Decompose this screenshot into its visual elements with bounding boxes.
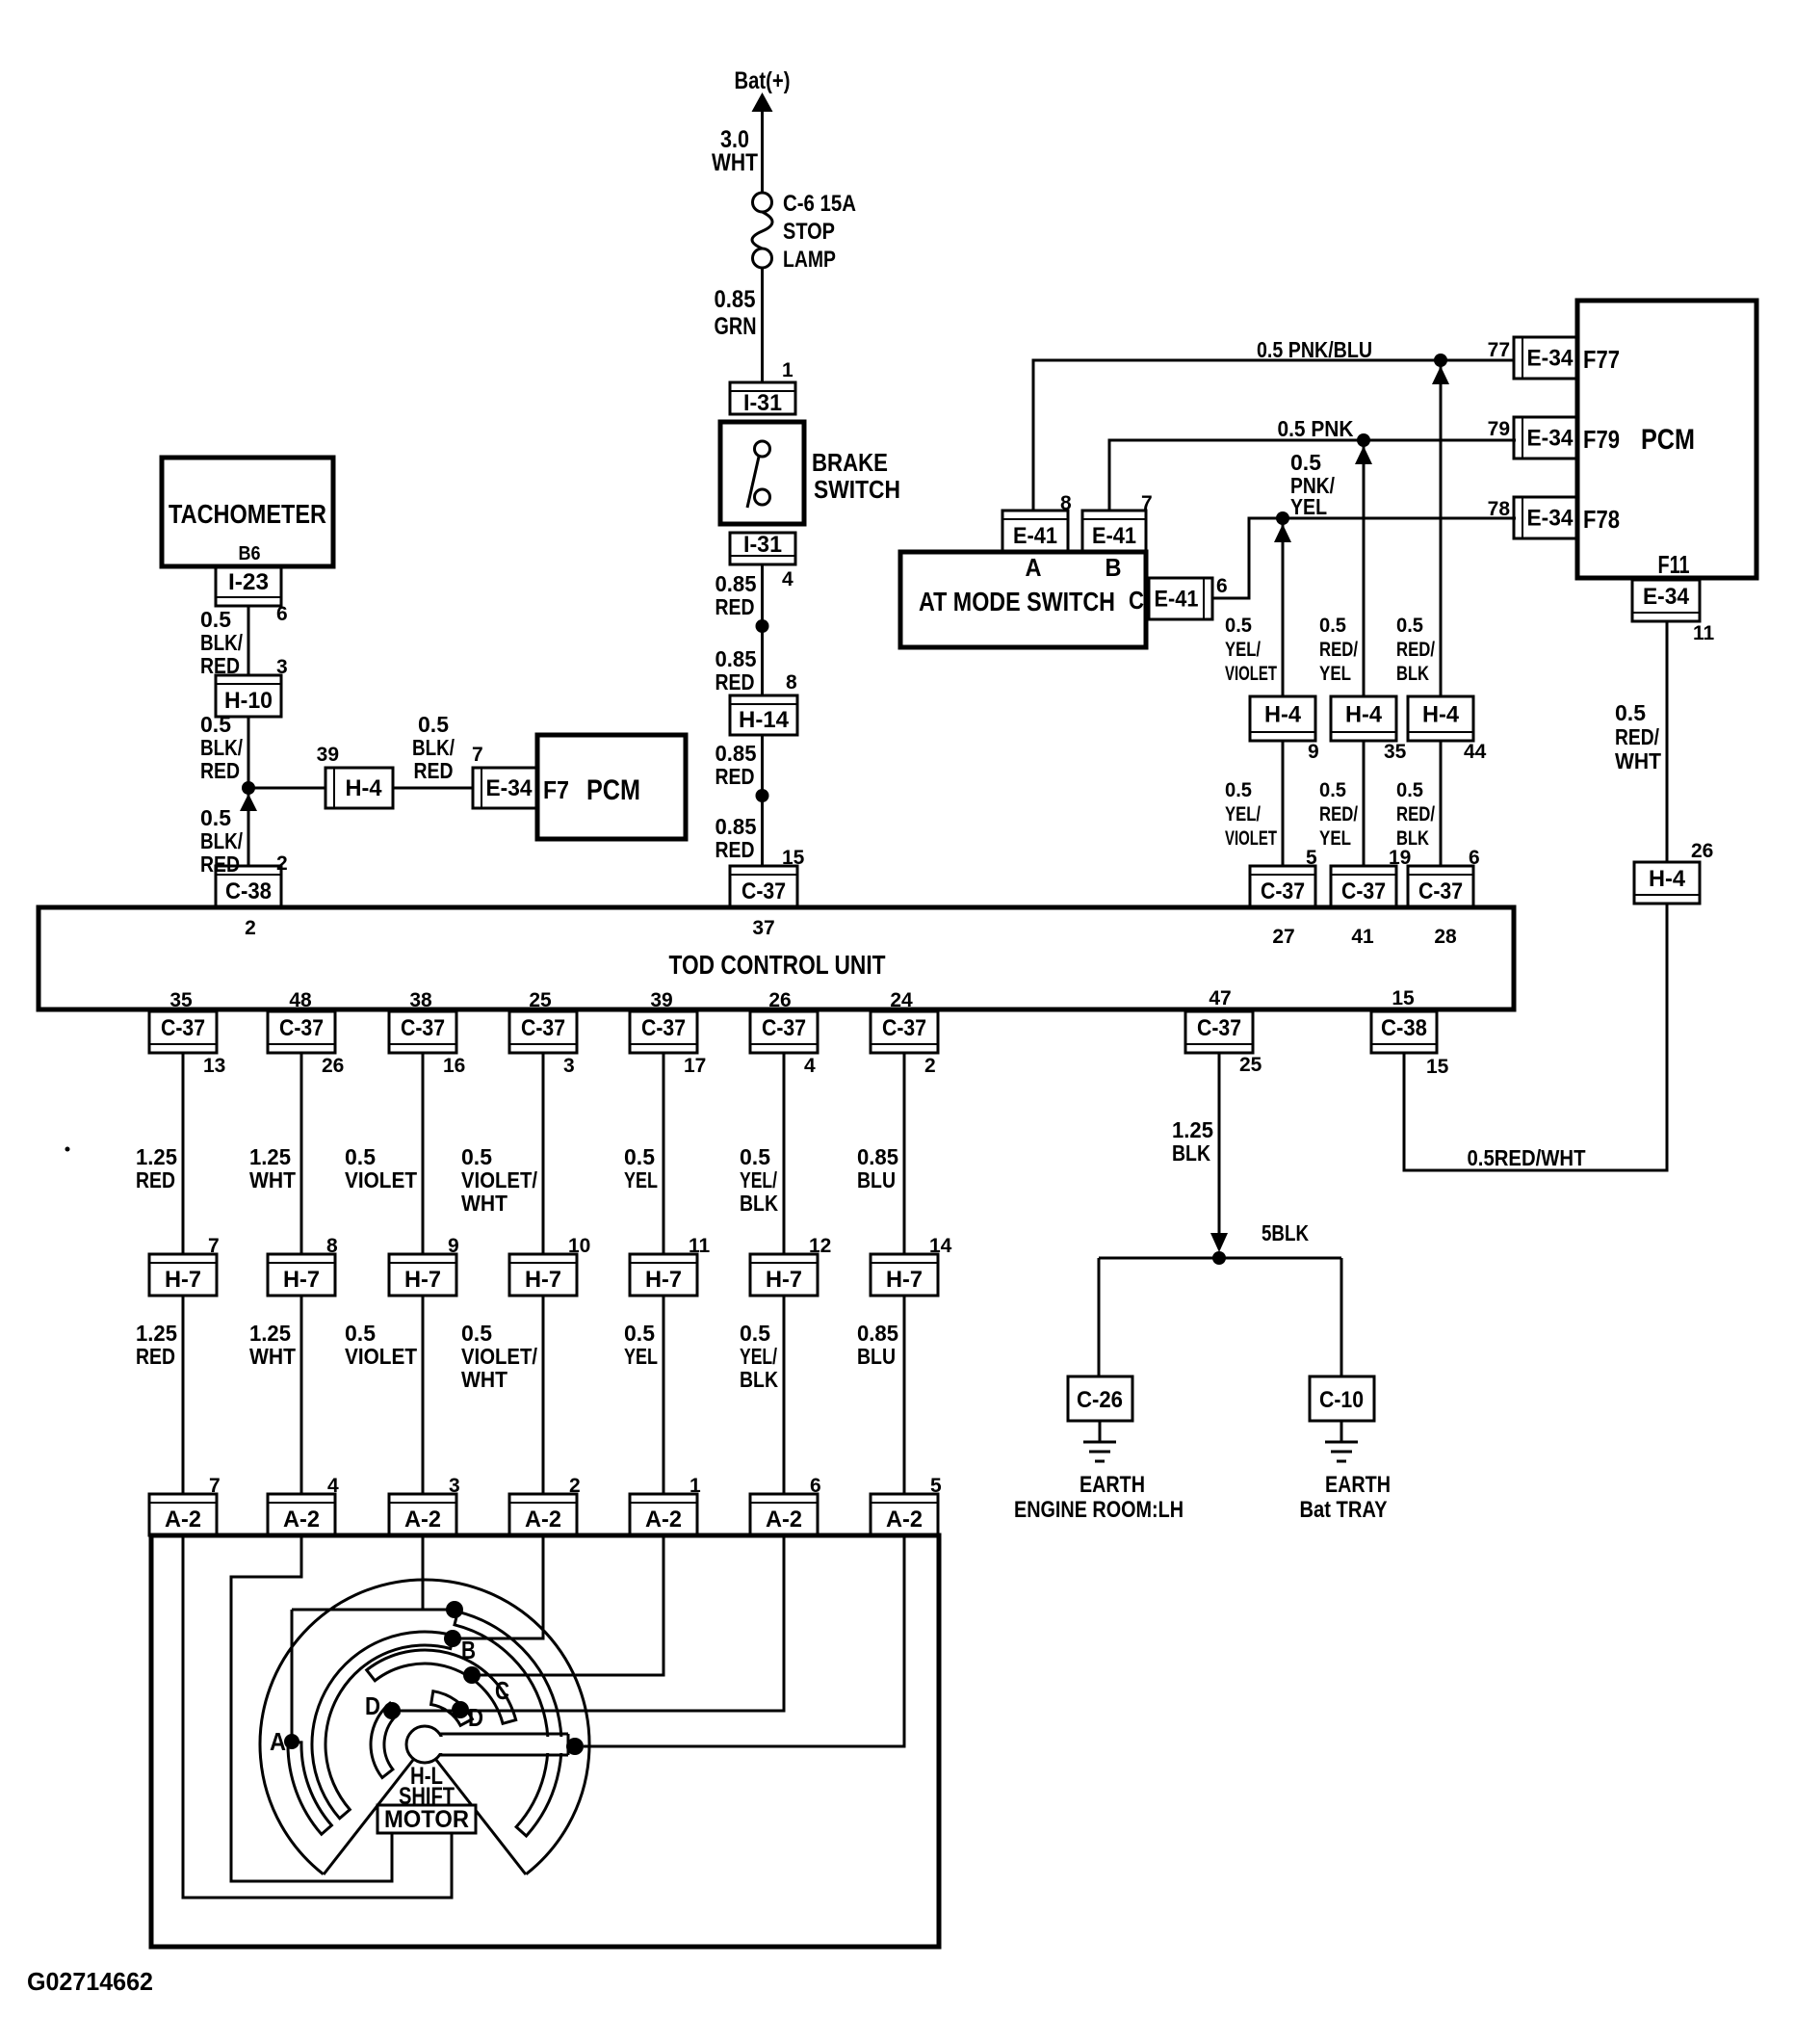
svg-text:E-41: E-41	[1155, 587, 1199, 613]
terminal dot winding D right	[452, 1701, 469, 1718]
wire to earth C-10	[1340, 1258, 1343, 1376]
pin 17 of C-37 (YEL)	[684, 1055, 706, 1077]
svg-text:79: 79	[1488, 418, 1510, 440]
svg-text:C-37: C-37	[161, 1015, 205, 1041]
pin 6 of C-37	[1469, 847, 1480, 869]
connector C-37 (column RED)	[149, 1011, 217, 1053]
svg-text:8: 8	[786, 671, 797, 694]
wire 0.5 VIOLET from C-37 to H-7	[345, 1053, 423, 1254]
svg-text:26: 26	[1691, 840, 1713, 862]
svg-text:2: 2	[924, 1055, 936, 1077]
svg-text:PCM: PCM	[1641, 424, 1695, 456]
wire 1.25 RED from C-37 to H-7	[136, 1053, 183, 1254]
wire 5BLK bus	[1099, 1257, 1341, 1260]
AT mode switch S2	[900, 552, 1146, 647]
svg-text:0.5: 0.5	[200, 805, 231, 830]
svg-text:0.5: 0.5	[1225, 779, 1252, 801]
pin 2 of A-2 (VIOLET/WHT)	[569, 1475, 581, 1497]
wire 0.5 RED/BLK riser	[1440, 366, 1443, 696]
pin 11 of H-7 (YEL)	[689, 1235, 711, 1257]
svg-text:E-34: E-34	[1527, 346, 1574, 372]
connector C-37 (brake feed)	[730, 866, 797, 907]
svg-text:1.25: 1.25	[136, 1144, 177, 1169]
svg-text:EARTH: EARTH	[1080, 1472, 1145, 1498]
svg-text:78: 78	[1488, 498, 1511, 520]
svg-text:YEL/: YEL/	[1225, 803, 1261, 825]
svg-text:VIOLET: VIOLET	[1225, 663, 1277, 685]
svg-text:77: 77	[1488, 339, 1510, 361]
pin 35 of H-4	[1384, 741, 1407, 763]
pin 8 of E-41 A	[1060, 492, 1072, 514]
wire 0.5 YEL/ BLK from C-37 to H-7	[740, 1053, 784, 1254]
connector H-7 (column VIOLET/WHT)	[509, 1254, 577, 1296]
svg-text:37: 37	[752, 917, 774, 939]
junction on 0.5 PNK/BLU	[1432, 354, 1449, 384]
svg-text:0.5: 0.5	[345, 1321, 376, 1346]
terminal dot winding top	[446, 1601, 463, 1618]
svg-text:0.5: 0.5	[740, 1321, 770, 1346]
node D label (right)	[468, 1703, 483, 1732]
motor winding arc D left	[371, 1703, 399, 1777]
pin 14 of H-7 (BLU)	[929, 1235, 952, 1257]
connector H-7 (column YEL)	[630, 1254, 697, 1296]
svg-text:BRAKE: BRAKE	[812, 448, 888, 477]
svg-text:VIOLET/: VIOLET/	[461, 1167, 538, 1192]
svg-text:H-4: H-4	[1422, 702, 1460, 728]
svg-text:B: B	[461, 1636, 476, 1664]
connector C-37 (column YEL/BLK)	[750, 1011, 818, 1053]
connector C-26	[1068, 1376, 1132, 1421]
svg-text:RED: RED	[715, 669, 755, 694]
label 0.85 RED (fourth)	[715, 814, 757, 862]
svg-text:YEL/: YEL/	[740, 1344, 777, 1369]
svg-text:C-6 15A: C-6 15A	[783, 191, 856, 217]
svg-text:RED: RED	[136, 1344, 175, 1369]
svg-text:F11: F11	[1658, 550, 1690, 579]
svg-text:0.5: 0.5	[1290, 450, 1321, 475]
svg-text:48: 48	[289, 989, 312, 1011]
svg-text:YEL/: YEL/	[740, 1167, 777, 1192]
pin 78 of E-34	[1488, 498, 1511, 520]
wire 0.5 YEL from C-37 to H-7	[624, 1053, 663, 1254]
svg-text:15: 15	[1392, 987, 1415, 1009]
svg-text:C-37: C-37	[521, 1015, 565, 1041]
svg-text:0.5: 0.5	[461, 1321, 492, 1346]
connector A-2 (column YEL)	[630, 1494, 697, 1535]
svg-text:B: B	[1106, 553, 1122, 582]
wire H-4 35 to C-37 19	[1363, 741, 1366, 866]
pin 15 of C-38	[1426, 1056, 1449, 1078]
pin 5 of A-2 (BLU)	[930, 1475, 942, 1497]
terminal dot winding D left	[383, 1702, 401, 1719]
svg-text:C-37: C-37	[741, 878, 786, 904]
label 0.85 RED (second)	[715, 646, 757, 694]
node B of AT mode switch	[1106, 553, 1122, 582]
svg-text:TOD CONTROL UNIT: TOD CONTROL UNIT	[669, 950, 886, 980]
svg-text:A-2: A-2	[283, 1507, 320, 1533]
svg-text:VIOLET: VIOLET	[345, 1344, 417, 1369]
svg-text:A-2: A-2	[645, 1507, 682, 1533]
label 0.5 YEL/VIOLET (below H-4 9)	[1225, 779, 1277, 850]
svg-text:C-37: C-37	[1261, 878, 1305, 904]
svg-text:RED: RED	[715, 837, 755, 862]
connector H-4 (pin 35)	[1331, 696, 1396, 741]
svg-text:WHT: WHT	[712, 149, 758, 176]
pin 26 of C-37 (WHT)	[322, 1055, 344, 1077]
svg-text:35: 35	[1384, 741, 1407, 763]
wire A-2 4 to motor common	[231, 1535, 392, 1881]
wire 0.5 YEL from H-7 to A-2	[624, 1296, 663, 1494]
svg-text:0.5: 0.5	[624, 1321, 655, 1346]
svg-text:H-7: H-7	[645, 1267, 682, 1293]
svg-text:5BLK: 5BLK	[1262, 1220, 1309, 1245]
svg-text:2: 2	[245, 917, 256, 939]
pin 39 of H-4	[317, 744, 339, 766]
tachometer gauge	[162, 458, 333, 566]
junction on 0.5 PNK	[1355, 433, 1372, 464]
connector C-37 (column VIOLET/WHT)	[509, 1011, 577, 1053]
connector H-14	[730, 695, 797, 735]
svg-text:D: D	[468, 1703, 483, 1732]
wire 0.5 RED/YEL riser	[1363, 446, 1366, 696]
svg-text:H-7: H-7	[165, 1267, 201, 1293]
wire 0.5 BLK/RED H-4 to E-34	[393, 712, 473, 788]
pin 7 of A-2 (RED)	[209, 1475, 221, 1497]
svg-text:WHT: WHT	[1615, 748, 1661, 773]
svg-text:0.85: 0.85	[857, 1144, 898, 1169]
svg-text:F79: F79	[1583, 425, 1620, 454]
wire 1.25 RED from H-7 to A-2	[136, 1296, 183, 1494]
terminal dot winding C	[463, 1666, 481, 1684]
svg-text:RED: RED	[200, 852, 240, 877]
svg-text:BLU: BLU	[857, 1344, 896, 1369]
svg-text:17: 17	[684, 1055, 706, 1077]
wire branch to PCM F7	[248, 787, 325, 790]
svg-text:RED/: RED/	[1396, 639, 1435, 661]
svg-text:E-41: E-41	[1013, 523, 1057, 549]
svg-text:28: 28	[1434, 926, 1457, 948]
svg-text:E-34: E-34	[486, 775, 533, 801]
svg-text:1.25: 1.25	[136, 1321, 177, 1346]
svg-text:YEL: YEL	[624, 1344, 658, 1369]
pin 44 of H-4	[1464, 741, 1487, 763]
svg-text:E-41: E-41	[1092, 523, 1136, 549]
pin 6 of A-2 (YEL/BLK)	[810, 1475, 821, 1497]
connector C-37 (pin 47)	[1185, 1011, 1253, 1053]
wire 0.5 VIOLET from H-7 to A-2	[345, 1296, 423, 1494]
svg-text:1.25: 1.25	[249, 1144, 291, 1169]
svg-text:I-23: I-23	[228, 569, 269, 595]
svg-text:1: 1	[782, 359, 793, 381]
svg-text:C-38: C-38	[1381, 1015, 1427, 1041]
fuse C-6 15A STOP LAMP	[752, 191, 856, 273]
svg-text:0.5: 0.5	[624, 1144, 655, 1169]
arrow down on 1.25 BLK wire	[1210, 1233, 1228, 1252]
svg-text:RED: RED	[414, 758, 454, 783]
svg-text:7: 7	[1141, 492, 1153, 514]
wire 3.0 WHT from Bat(+) to fuse	[712, 111, 763, 193]
svg-text:9: 9	[1308, 741, 1319, 763]
svg-text:SWITCH: SWITCH	[814, 475, 900, 504]
connector H-7 (column VIOLET)	[389, 1254, 456, 1296]
wire H-4 44 to C-37 6	[1440, 741, 1443, 866]
svg-text:E-34: E-34	[1643, 584, 1690, 610]
pin 8 of H-7 (WHT)	[326, 1235, 338, 1257]
label 0.5 RED/BLK (above H-4 44)	[1396, 615, 1435, 685]
svg-text:38: 38	[409, 989, 432, 1011]
svg-text:A-2: A-2	[886, 1507, 923, 1533]
connector H-4 (pin 26)	[1634, 862, 1700, 904]
bottom pin numbers of TOD control unit	[169, 987, 1415, 1011]
pin 5 of C-37	[1306, 847, 1317, 869]
stray mark (scan speck)	[65, 1147, 70, 1152]
svg-text:H-7: H-7	[886, 1267, 923, 1293]
wire A-2 6 to winding D	[392, 1535, 784, 1711]
svg-text:16: 16	[443, 1055, 465, 1077]
svg-text:TACHOMETER: TACHOMETER	[169, 499, 326, 529]
wire 0.5 BLK/RED tach to H-10	[200, 606, 248, 678]
svg-text:8: 8	[1060, 492, 1072, 514]
ground earth engine room LH	[1014, 1421, 1184, 1523]
label 0.5 BLK/RED (to C-38)	[200, 805, 243, 877]
svg-text:0.5: 0.5	[345, 1144, 376, 1169]
connector A-2 (column WHT)	[268, 1494, 335, 1535]
node Bat(+) power symbol with arrow	[735, 67, 791, 112]
svg-text:F77: F77	[1583, 345, 1620, 374]
node C label	[495, 1676, 509, 1705]
svg-text:Bat TRAY: Bat TRAY	[1300, 1497, 1388, 1523]
wire A-2 2 to winding B	[451, 1535, 543, 1638]
svg-text:0.85: 0.85	[715, 814, 757, 839]
pin 2 of C-37 (BLU)	[924, 1055, 936, 1077]
wire 1.25 WHT from H-7 to A-2	[249, 1296, 301, 1494]
connector C-37 (column YEL)	[630, 1011, 697, 1053]
connector E-41 A	[1002, 511, 1068, 552]
wire A-2 3 to winding A	[292, 1535, 455, 1742]
connector A-2 (column VIOLET)	[389, 1494, 456, 1535]
pin 2 of C-38	[276, 852, 288, 875]
svg-text:H-10: H-10	[224, 688, 273, 714]
terminal dot winding A	[284, 1734, 299, 1749]
svg-text:STOP: STOP	[783, 219, 835, 245]
svg-text:RED/: RED/	[1319, 803, 1358, 825]
svg-text:0.5: 0.5	[461, 1144, 492, 1169]
pin 4 of C-37 (YEL/BLK)	[804, 1055, 816, 1077]
svg-text:39: 39	[650, 989, 672, 1011]
svg-text:47: 47	[1209, 987, 1231, 1009]
wire 0.5 BLK/RED from H-10 to junction	[200, 712, 248, 866]
svg-text:0.85: 0.85	[715, 646, 757, 671]
svg-text:H-7: H-7	[283, 1267, 320, 1293]
op PCM (F7 section)	[537, 735, 686, 839]
connector E-34 (pin 11)	[1632, 580, 1700, 621]
svg-text:0.85: 0.85	[857, 1321, 898, 1346]
svg-text:35: 35	[169, 989, 193, 1011]
wire 0.5 PNK/BLU from E-41 A to PCM F77	[1033, 337, 1513, 511]
svg-text:25: 25	[529, 989, 552, 1011]
svg-text:15: 15	[1426, 1056, 1449, 1078]
motor label H-L SHIFT MOTOR	[377, 1763, 476, 1833]
svg-text:0.5: 0.5	[418, 712, 449, 737]
svg-text:E-34: E-34	[1527, 426, 1574, 452]
pin 26 of H-4	[1691, 840, 1713, 862]
svg-text:27: 27	[1272, 926, 1294, 948]
connector I-31 (upper)	[730, 382, 795, 416]
svg-text:VIOLET: VIOLET	[1225, 827, 1277, 850]
svg-text:3: 3	[563, 1055, 575, 1077]
wire 1.25 BLK from C-37 to earth junction	[1172, 1053, 1219, 1233]
node B label	[461, 1636, 476, 1664]
svg-text:1.25: 1.25	[1172, 1117, 1213, 1142]
motor winding arc D right	[431, 1691, 473, 1726]
motor rotor hub	[406, 1726, 568, 1763]
label 0.5 RED/YEL (above H-4 35)	[1319, 615, 1358, 685]
pin 1 of brake switch	[782, 359, 793, 381]
node F77 of PCM	[1583, 345, 1620, 374]
svg-text:0.5: 0.5	[1225, 615, 1252, 637]
motor winding arc B	[312, 1632, 454, 1819]
pin 41 of TOD control unit	[1351, 926, 1374, 948]
svg-text:BLK: BLK	[1172, 1140, 1210, 1166]
svg-text:C: C	[495, 1676, 509, 1705]
connector C-38 (tach)	[216, 866, 281, 907]
wire 0.5 VIOLET/ WHT from C-37 to H-7	[461, 1053, 543, 1254]
op PCM main module	[1577, 301, 1756, 578]
svg-text:AT MODE SWITCH: AT MODE SWITCH	[919, 587, 1115, 616]
wire A-2 7 to motor common	[183, 1535, 452, 1898]
node F11 of PCM	[1658, 550, 1690, 579]
svg-text:C-26: C-26	[1077, 1387, 1123, 1413]
wire H-4 9 to C-37 5	[1282, 741, 1285, 866]
svg-text:H-4: H-4	[1649, 866, 1686, 892]
connector C-10	[1310, 1376, 1374, 1421]
pin 3 of A-2 (VIOLET)	[449, 1475, 460, 1497]
op TOD control unit U1	[39, 907, 1514, 1009]
svg-text:C-37: C-37	[279, 1015, 324, 1041]
figure number G02714662	[27, 1967, 153, 1996]
connector C-37 (pin 19)	[1331, 866, 1396, 907]
svg-text:BLK: BLK	[740, 1191, 778, 1216]
label 0.5 YEL/VIOLET (above H-4 9)	[1225, 615, 1277, 685]
node A label	[270, 1727, 286, 1756]
svg-text:C-37: C-37	[401, 1015, 445, 1041]
svg-text:0.5: 0.5	[1319, 615, 1346, 637]
connector E-34 (pin 7)	[473, 768, 536, 808]
svg-text:WHT: WHT	[461, 1367, 507, 1392]
connector H-4 (pin 44)	[1408, 696, 1473, 741]
svg-text:C: C	[1129, 586, 1144, 615]
connector I-23	[216, 566, 281, 606]
svg-text:41: 41	[1351, 926, 1374, 948]
svg-text:0.85: 0.85	[715, 571, 757, 596]
svg-text:EARTH: EARTH	[1325, 1472, 1391, 1498]
svg-text:RED/: RED/	[1615, 724, 1660, 749]
svg-text:6: 6	[276, 603, 288, 625]
svg-text:ENGINE ROOM:LH: ENGINE ROOM:LH	[1014, 1497, 1184, 1523]
wire 0.85 BLU from C-37 to H-7	[857, 1053, 904, 1254]
junction on 0.5 PNK/YEL	[1274, 511, 1291, 542]
pin 3 of C-37 (VIOLET/WHT)	[563, 1055, 575, 1077]
wire 0.5 PNK/YEL from E-41 C to PCM F78	[1212, 450, 1516, 598]
wire 0.85 GRN from fuse to connector I-31	[715, 268, 763, 382]
motor winding arc (top, to A-2 3)	[455, 1612, 561, 1836]
svg-text:WHT: WHT	[461, 1191, 507, 1216]
svg-text:YEL: YEL	[1319, 827, 1351, 850]
pin 16 of C-37 (VIOLET)	[443, 1055, 465, 1077]
pin 1 of A-2 (YEL)	[689, 1475, 701, 1497]
junction node 5BLK	[1212, 1220, 1309, 1265]
connector E-34 (pin 77)	[1514, 337, 1577, 379]
svg-text:F78: F78	[1583, 505, 1620, 534]
svg-text:C-37: C-37	[641, 1015, 686, 1041]
node F78 of PCM	[1583, 505, 1620, 534]
svg-text:0.85: 0.85	[715, 286, 756, 313]
svg-text:E-34: E-34	[1527, 506, 1574, 532]
svg-text:39: 39	[317, 744, 339, 766]
svg-text:B6: B6	[239, 543, 261, 564]
wire 0.5 RED/WHT from PCM F11 to H-4 26	[1615, 621, 1667, 862]
svg-text:0.5: 0.5	[200, 607, 231, 632]
svg-text:0.5: 0.5	[1615, 700, 1646, 725]
wire 0.85 BLU from H-7 to A-2	[857, 1296, 904, 1494]
svg-text:PCM: PCM	[586, 774, 640, 806]
svg-text:RED/: RED/	[1319, 639, 1358, 661]
pin 27 of TOD control unit	[1272, 926, 1294, 948]
svg-text:D: D	[365, 1691, 380, 1720]
pin 7 of E-41 B	[1141, 492, 1153, 514]
svg-text:H-4: H-4	[1345, 702, 1383, 728]
connector C-37 (pin 6)	[1408, 866, 1473, 907]
svg-text:A-2: A-2	[525, 1507, 561, 1533]
svg-text:C-37: C-37	[1341, 878, 1386, 904]
svg-text:C-37: C-37	[882, 1015, 926, 1041]
svg-text:26: 26	[768, 989, 791, 1011]
svg-text:0.5 PNK: 0.5 PNK	[1278, 416, 1354, 441]
svg-text:0.5: 0.5	[1319, 779, 1346, 801]
junction on 0.85 RED wire	[756, 619, 769, 633]
svg-text:RED: RED	[136, 1167, 175, 1192]
connector E-41 B	[1082, 511, 1146, 552]
svg-text:1.25: 1.25	[249, 1321, 291, 1346]
connector H-4 (pin 39)	[325, 768, 393, 808]
svg-text:BLK/: BLK/	[200, 828, 243, 853]
arrow up on tachometer wire	[240, 794, 257, 811]
svg-text:0.5: 0.5	[200, 712, 231, 737]
svg-text:A-2: A-2	[766, 1507, 802, 1533]
pin 37 of TOD control unit	[752, 917, 774, 939]
connector C-37 (column WHT)	[268, 1011, 335, 1053]
wire 0.5 YEL/VIOLET riser	[1282, 524, 1285, 696]
svg-text:MOTOR: MOTOR	[384, 1806, 469, 1833]
pin 13 of C-37 (RED)	[203, 1055, 225, 1077]
svg-text:F7: F7	[543, 775, 569, 804]
svg-text:RED: RED	[715, 764, 755, 789]
svg-text:H-14: H-14	[739, 707, 790, 733]
pin 28 of TOD control unit	[1434, 926, 1457, 948]
wire 0.85 RED from brake switch to H-14	[715, 564, 763, 695]
svg-text:0.5: 0.5	[740, 1144, 770, 1169]
svg-text:VIOLET/: VIOLET/	[461, 1344, 538, 1369]
svg-text:RED/: RED/	[1396, 803, 1435, 825]
svg-text:7: 7	[472, 744, 483, 766]
motor M1 H-L shift motor enclosure	[151, 1535, 939, 1947]
svg-text:24: 24	[890, 989, 913, 1011]
wire 0.5 VIOLET/ WHT from H-7 to A-2	[461, 1296, 543, 1494]
svg-text:A-2: A-2	[165, 1507, 201, 1533]
svg-text:A: A	[1026, 553, 1042, 582]
svg-text:RED: RED	[200, 758, 240, 783]
svg-text:6: 6	[1216, 575, 1228, 597]
